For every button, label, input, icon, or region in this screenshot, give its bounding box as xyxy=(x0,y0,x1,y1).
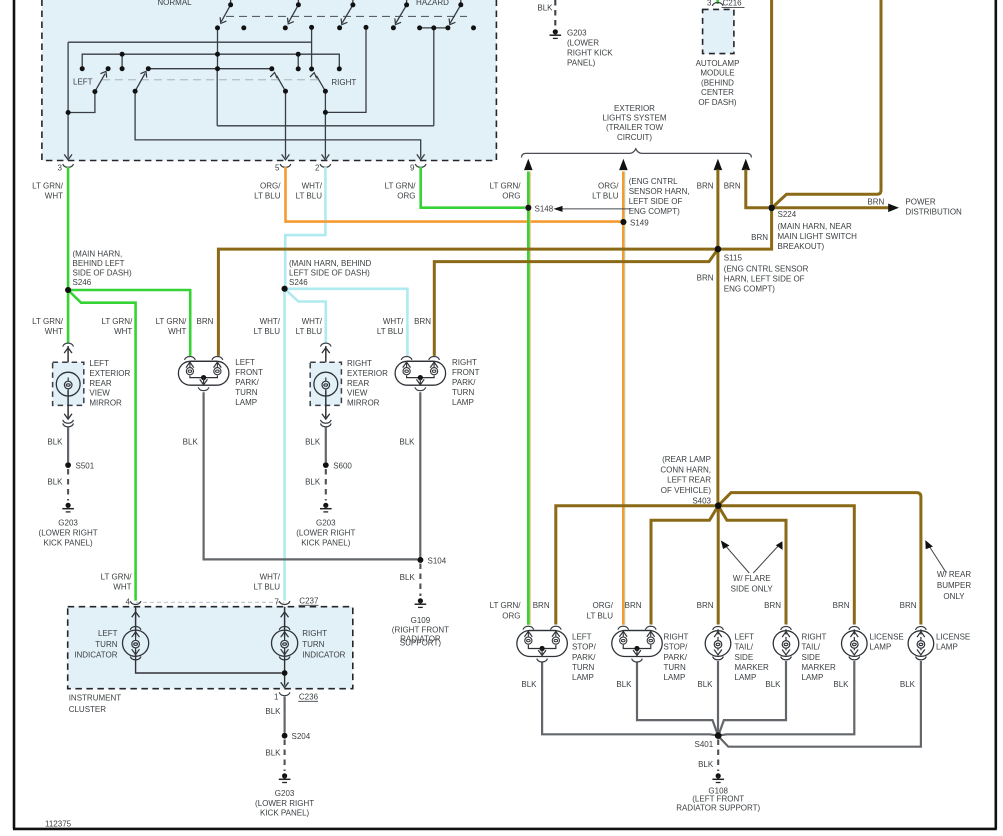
svg-text:RIGHT: RIGHT xyxy=(452,358,477,367)
wire BLK left stop lamp to S401 xyxy=(542,663,716,736)
svg-text:ONLY: ONLY xyxy=(943,592,965,601)
svg-text:BRN: BRN xyxy=(533,601,550,610)
svg-text:LEFT: LEFT xyxy=(735,633,755,642)
svg-text:CONN HARN,: CONN HARN, xyxy=(660,465,711,474)
wire BLK right mirror to S600 xyxy=(325,427,327,462)
wire BLK left tail lamp to S401 xyxy=(717,661,719,733)
svg-text:S600: S600 xyxy=(333,462,352,471)
svg-text:S148: S148 xyxy=(535,205,554,214)
svg-text:NORMAL: NORMAL xyxy=(157,0,192,7)
svg-text:RIGHT KICK: RIGHT KICK xyxy=(567,49,613,58)
svg-text:BRN: BRN xyxy=(697,182,714,191)
svg-text:LT GRN/: LT GRN/ xyxy=(32,317,64,326)
license lamp (rear bumper) xyxy=(908,627,934,660)
svg-text:(TRAILER TOW: (TRAILER TOW xyxy=(606,123,663,132)
wire BRN feed to S115 xyxy=(716,170,719,503)
note W/ REAR BUMPER ONLY with arrow xyxy=(928,545,946,573)
svg-text:SIDE OF DASH): SIDE OF DASH) xyxy=(73,269,132,278)
wire BLK left front lamp to S104 xyxy=(204,392,418,559)
splice S401 xyxy=(715,732,721,738)
svg-text:C216: C216 xyxy=(723,0,743,8)
svg-text:LT BLU: LT BLU xyxy=(377,327,404,336)
svg-text:ORG/: ORG/ xyxy=(593,601,614,610)
svg-text:S104: S104 xyxy=(428,557,447,566)
svg-text:BLK: BLK xyxy=(521,680,537,689)
wire BRN from power distribution (right loop) xyxy=(773,0,881,207)
splice S204 xyxy=(282,733,288,739)
svg-text:(ENG CNTRL: (ENG CNTRL xyxy=(629,177,678,186)
svg-text:BLK: BLK xyxy=(183,437,199,446)
svg-text:FRONT: FRONT xyxy=(452,368,480,377)
svg-text:LEFT SIDE OF: LEFT SIDE OF xyxy=(629,197,683,206)
svg-text:BRN: BRN xyxy=(764,601,781,610)
wire BRN S403 to left stop lamp xyxy=(556,506,715,625)
svg-text:BLK: BLK xyxy=(47,478,63,487)
note W/ FLARE SIDE ONLY with arrows xyxy=(723,543,780,573)
svg-text:PANEL): PANEL) xyxy=(567,59,596,68)
svg-text:HAZARD: HAZARD xyxy=(416,0,449,7)
wire BLK left mirror to S501 xyxy=(67,427,69,462)
right turn indicator xyxy=(272,607,346,686)
left stop/park/turn lamp xyxy=(517,626,568,662)
svg-text:WHT: WHT xyxy=(45,327,63,336)
svg-text:BRN: BRN xyxy=(724,182,741,191)
wire branch to left front park lamp xyxy=(68,290,190,356)
rear wire color labels xyxy=(490,601,917,621)
svg-text:ORG: ORG xyxy=(502,192,520,201)
svg-text:BRN: BRN xyxy=(625,601,642,610)
ground G109 xyxy=(415,598,427,607)
wire BRN S115 to left front park lamp xyxy=(218,249,714,356)
svg-text:REAR: REAR xyxy=(347,379,369,388)
right tail/side marker lamp xyxy=(773,627,799,660)
svg-text:LEFT REAR: LEFT REAR xyxy=(667,476,711,485)
splice S501 xyxy=(65,462,71,468)
svg-text:(LOWER RIGHT: (LOWER RIGHT xyxy=(255,799,314,808)
svg-text:TURN: TURN xyxy=(302,640,324,649)
svg-text:BLK: BLK xyxy=(399,437,415,446)
svg-text:G203: G203 xyxy=(58,519,78,528)
ground G203 (instrument cluster) xyxy=(279,773,291,782)
svg-text:2: 2 xyxy=(315,164,320,173)
splice S246 (right) xyxy=(282,286,288,292)
svg-text:EXTERIOR: EXTERIOR xyxy=(614,104,655,113)
wire BLK S600 to G203 (dashed) xyxy=(325,469,327,501)
note (ENG CNTRL SENSOR HARN, LEFT SIDE OF ENG COMPT) xyxy=(629,177,690,216)
svg-text:PARK/: PARK/ xyxy=(572,653,596,662)
svg-text:INSTRUMENT: INSTRUMENT xyxy=(69,694,122,703)
wire BRN S403 to right stop lamp xyxy=(651,506,718,625)
svg-text:BLK: BLK xyxy=(537,4,553,13)
svg-text:TURN: TURN xyxy=(664,663,686,672)
wire branch to left mirror xyxy=(67,290,70,343)
svg-text:LEFT: LEFT xyxy=(73,78,93,87)
trailer tow feed arrows (solid) xyxy=(524,159,750,170)
connector C236 pin 1 xyxy=(279,692,290,695)
svg-text:STOP/: STOP/ xyxy=(572,643,597,652)
svg-text:WHT/: WHT/ xyxy=(302,182,323,191)
svg-text:TAIL/: TAIL/ xyxy=(802,643,821,652)
svg-text:1: 1 xyxy=(274,693,279,702)
svg-text:LAMP: LAMP xyxy=(870,643,892,652)
svg-text:LEFT SIDE OF DASH): LEFT SIDE OF DASH) xyxy=(289,269,370,278)
switch contact dots xyxy=(66,2,476,115)
brace bracket xyxy=(522,149,752,158)
svg-text:KICK PANEL): KICK PANEL) xyxy=(260,809,310,818)
svg-text:LT GRN/: LT GRN/ xyxy=(490,182,522,191)
right front park/turn lamp xyxy=(395,357,480,407)
svg-text:(MAIN HARN, BEHIND: (MAIN HARN, BEHIND xyxy=(289,259,371,268)
svg-text:AUTOLAMP: AUTOLAMP xyxy=(696,59,740,68)
splice S600 xyxy=(323,462,329,468)
svg-text:C236: C236 xyxy=(299,693,319,702)
autolamp module (dashed box) xyxy=(703,9,734,53)
svg-text:RIGHT: RIGHT xyxy=(802,633,827,642)
right exterior rear view mirror xyxy=(310,343,388,427)
svg-text:S246: S246 xyxy=(73,278,92,287)
svg-text:BRN: BRN xyxy=(697,601,714,610)
svg-text:ORG/: ORG/ xyxy=(260,182,281,191)
splice S224 xyxy=(768,205,774,211)
svg-text:BLK: BLK xyxy=(765,680,781,689)
wire BRN S224 to power distribution xyxy=(775,206,890,209)
svg-text:112375: 112375 xyxy=(45,820,72,829)
switch arm arrowheads xyxy=(100,17,455,78)
svg-text:SIDE ONLY: SIDE ONLY xyxy=(731,585,774,594)
svg-text:CIRCUIT): CIRCUIT) xyxy=(617,133,652,142)
svg-text:LT BLU: LT BLU xyxy=(587,612,614,621)
splice S115 xyxy=(715,246,721,252)
switch linkage dashed lines xyxy=(226,15,467,17)
svg-text:LT BLU: LT BLU xyxy=(254,583,281,592)
svg-text:BLK: BLK xyxy=(616,680,632,689)
svg-text:9: 9 xyxy=(410,164,415,173)
svg-text:(LOWER RIGHT: (LOWER RIGHT xyxy=(296,529,355,538)
svg-text:(LEFT FRONT: (LEFT FRONT xyxy=(692,795,744,804)
svg-text:FRONT: FRONT xyxy=(235,368,263,377)
svg-text:INDICATOR: INDICATOR xyxy=(302,651,345,660)
svg-text:(RIGHT FRONT: (RIGHT FRONT xyxy=(392,626,449,635)
svg-text:LT BLU: LT BLU xyxy=(296,327,323,336)
svg-text:3: 3 xyxy=(58,164,63,173)
svg-text:TURN: TURN xyxy=(452,388,474,397)
svg-text:WHT/: WHT/ xyxy=(260,573,281,582)
left tail/side marker lamp xyxy=(705,627,731,660)
connector C216 pin 3 xyxy=(716,0,719,4)
svg-text:POWER: POWER xyxy=(905,197,935,206)
svg-text:REAR: REAR xyxy=(89,379,111,388)
cluster ground junction xyxy=(282,670,288,676)
svg-text:BLK: BLK xyxy=(305,437,321,446)
svg-text:LT GRN/: LT GRN/ xyxy=(32,182,64,191)
wire BLK S401 to G108 (dashed) xyxy=(717,740,719,772)
svg-text:3: 3 xyxy=(707,0,712,8)
svg-text:LEFT: LEFT xyxy=(89,359,109,368)
svg-text:LT GRN/: LT GRN/ xyxy=(385,182,417,191)
ground G203 (top, lower right kick panel) xyxy=(550,29,562,38)
wire color labels below switch xyxy=(32,182,741,201)
svg-text:LAMP: LAMP xyxy=(572,673,594,682)
svg-text:MIRROR: MIRROR xyxy=(89,398,122,407)
wire BLK license lamp 2 to S401 xyxy=(720,661,921,747)
svg-text:LEFT: LEFT xyxy=(572,633,592,642)
wire BLK S501 to G203 (dashed) xyxy=(67,469,69,501)
svg-text:(LOWER: (LOWER xyxy=(567,39,599,48)
svg-text:INDICATOR: INDICATOR xyxy=(74,651,117,660)
svg-text:LT GRN/: LT GRN/ xyxy=(490,601,522,610)
svg-text:ORG/: ORG/ xyxy=(598,182,619,191)
svg-text:VIEW: VIEW xyxy=(89,389,110,398)
switch internal wiring xyxy=(68,0,461,158)
svg-text:MARKER: MARKER xyxy=(735,663,769,672)
svg-text:S501: S501 xyxy=(76,462,95,471)
svg-text:MODULE: MODULE xyxy=(700,69,734,78)
svg-text:TURN: TURN xyxy=(95,640,117,649)
wire BRN S403 to left tail lamp xyxy=(717,508,720,625)
svg-text:4: 4 xyxy=(126,598,131,607)
splice S403 dot xyxy=(715,503,721,509)
svg-text:TURN: TURN xyxy=(235,388,257,397)
wire branch to instrument cluster pin 4 xyxy=(68,290,136,601)
wire BLK license lamp 1 to S401 xyxy=(720,661,854,735)
svg-text:WHT: WHT xyxy=(45,192,63,201)
wire BRN S224 down to S115 row xyxy=(721,211,772,249)
svg-text:STOP/: STOP/ xyxy=(664,643,689,652)
ground G108 xyxy=(712,773,724,782)
svg-text:KICK PANEL): KICK PANEL) xyxy=(43,539,93,548)
left turn indicator xyxy=(74,607,281,673)
svg-text:TAIL/: TAIL/ xyxy=(735,643,754,652)
wire BLK right tail lamp to S401 xyxy=(719,661,786,734)
svg-text:LAMP: LAMP xyxy=(735,673,757,682)
svg-text:LT GRN/: LT GRN/ xyxy=(101,317,133,326)
svg-text:G203: G203 xyxy=(567,29,587,38)
svg-text:(MAIN HARN, NEAR: (MAIN HARN, NEAR xyxy=(778,222,852,231)
ground wire BLK at top (from switch, off-page) xyxy=(554,0,556,28)
wire BRN S115 to right front park lamp xyxy=(434,249,718,356)
wire BRN from power distribution (left vertical) xyxy=(770,0,773,204)
svg-text:LAMP: LAMP xyxy=(664,673,686,682)
svg-text:ENG COMPT): ENG COMPT) xyxy=(724,285,775,294)
svg-text:BLK: BLK xyxy=(47,437,63,446)
svg-text:BLK: BLK xyxy=(698,760,714,769)
svg-text:C237: C237 xyxy=(299,597,319,606)
wire BRN S403 to license lamp 2 (rear bumper) xyxy=(718,493,921,625)
wire WHT/LT BLU from pin 2 to S246 (right) xyxy=(285,167,408,601)
svg-text:SIDE: SIDE xyxy=(802,653,821,662)
svg-text:RADIATOR SUPPORT): RADIATOR SUPPORT) xyxy=(676,803,760,812)
svg-text:LT BLU: LT BLU xyxy=(592,192,619,201)
svg-text:SIDE: SIDE xyxy=(735,653,754,662)
pin connector cups and numbers xyxy=(63,164,426,167)
ground G203 (right mirror) xyxy=(320,503,332,512)
junction dots top layer xyxy=(65,205,775,739)
svg-text:(REAR LAMP: (REAR LAMP xyxy=(662,455,711,464)
splice S104 xyxy=(418,557,424,563)
left exterior rear view mirror xyxy=(53,343,131,427)
svg-text:BLK: BLK xyxy=(833,680,849,689)
exterior lights system (trailer tow circuit) label xyxy=(602,104,666,142)
instrument cluster (dashed box) xyxy=(68,607,353,689)
svg-text:BLK: BLK xyxy=(697,680,713,689)
svg-text:CENTER: CENTER xyxy=(701,88,734,97)
svg-text:LAMP: LAMP xyxy=(802,673,824,682)
svg-text:S246: S246 xyxy=(289,278,308,287)
svg-text:TURN: TURN xyxy=(572,663,594,672)
svg-text:5: 5 xyxy=(275,164,280,173)
svg-text:OF VEHICLE): OF VEHICLE) xyxy=(661,486,712,495)
wire LT GRN/WHT from pin 3 to S246 xyxy=(68,167,190,601)
splice S403 label xyxy=(660,455,711,506)
svg-text:BLK: BLK xyxy=(400,573,416,582)
svg-text:MIRROR: MIRROR xyxy=(347,398,380,407)
wire BLK right stop lamp to S401 xyxy=(637,663,718,735)
connector C237 line and pins xyxy=(136,601,284,603)
svg-text:G109: G109 xyxy=(411,616,431,625)
svg-text:BRN: BRN xyxy=(867,197,884,206)
svg-text:LT GRN/: LT GRN/ xyxy=(156,317,188,326)
svg-text:S224: S224 xyxy=(778,210,797,219)
wire BLK right front lamp to S104 xyxy=(419,392,421,557)
wire BRN feed to S224 xyxy=(746,170,768,208)
svg-text:RIGHT: RIGHT xyxy=(331,78,356,87)
svg-text:LT BLU: LT BLU xyxy=(254,327,281,336)
svg-text:(ENG CNTRL SENSOR: (ENG CNTRL SENSOR xyxy=(724,265,809,274)
svg-text:WHT: WHT xyxy=(168,327,186,336)
svg-text:S204: S204 xyxy=(292,732,311,741)
wire BLK cluster to S204 xyxy=(284,697,286,733)
svg-text:(MAIN HARN,: (MAIN HARN, xyxy=(73,250,123,259)
right stop/park/turn lamp xyxy=(612,626,663,662)
ground G203 (left mirror) xyxy=(62,503,74,512)
svg-text:BLK: BLK xyxy=(265,749,281,758)
wire color labels above front lamps xyxy=(32,317,431,336)
svg-text:SENSOR HARN,: SENSOR HARN, xyxy=(629,187,690,196)
svg-text:LAMP: LAMP xyxy=(452,398,474,407)
svg-text:LEFT: LEFT xyxy=(235,358,255,367)
svg-text:BREAKOUT): BREAKOUT) xyxy=(778,242,825,251)
svg-text:BRN: BRN xyxy=(697,274,714,283)
svg-text:MARKER: MARKER xyxy=(802,663,836,672)
svg-text:VIEW: VIEW xyxy=(347,389,368,398)
svg-text:LICENSE: LICENSE xyxy=(870,633,904,642)
svg-text:EXTERIOR: EXTERIOR xyxy=(89,369,130,378)
svg-text:S115: S115 xyxy=(724,254,743,263)
wire branch to right front park lamp xyxy=(285,289,408,356)
svg-text:SUPPORT): SUPPORT) xyxy=(400,639,442,648)
splice S246 (left) xyxy=(65,287,71,293)
svg-text:DISTRIBUTION: DISTRIBUTION xyxy=(905,207,962,216)
svg-text:BRN: BRN xyxy=(900,601,917,610)
wire BLK S104 to G109 (dashed) xyxy=(419,564,421,597)
svg-text:LICENSE: LICENSE xyxy=(936,633,970,642)
svg-text:PARK/: PARK/ xyxy=(235,378,259,387)
svg-text:PARK/: PARK/ xyxy=(452,378,476,387)
svg-text:WHT/: WHT/ xyxy=(302,317,323,326)
svg-text:BLK: BLK xyxy=(900,680,916,689)
svg-text:RIGHT: RIGHT xyxy=(664,633,689,642)
wire LT GRN/ORG from pin 9 to S148 xyxy=(421,167,530,625)
svg-text:RIGHT: RIGHT xyxy=(347,359,372,368)
svg-text:RIGHT: RIGHT xyxy=(302,629,327,638)
svg-text:(LOWER RIGHT: (LOWER RIGHT xyxy=(39,529,98,538)
svg-text:G203: G203 xyxy=(275,789,295,798)
svg-text:KICK PANEL): KICK PANEL) xyxy=(301,539,351,548)
svg-text:ORG: ORG xyxy=(397,192,415,201)
svg-text:LT GRN/: LT GRN/ xyxy=(101,573,133,582)
svg-text:BLK: BLK xyxy=(265,707,281,716)
svg-text:EXTERIOR: EXTERIOR xyxy=(347,369,388,378)
svg-text:LAMP: LAMP xyxy=(235,398,257,407)
svg-text:OF DASH): OF DASH) xyxy=(698,98,737,107)
splice S149 xyxy=(620,219,626,225)
svg-text:LT BLU: LT BLU xyxy=(254,192,281,201)
wire BRN S403 to license lamp 1 xyxy=(721,506,854,625)
svg-text:LIGHTS SYSTEM: LIGHTS SYSTEM xyxy=(602,114,666,123)
svg-text:LAMP: LAMP xyxy=(936,643,958,652)
svg-text:BRN: BRN xyxy=(197,317,214,326)
svg-text:LEFT: LEFT xyxy=(98,629,118,638)
license lamp (flare side) xyxy=(842,627,868,660)
svg-text:LT BLU: LT BLU xyxy=(296,192,323,201)
svg-text:G203: G203 xyxy=(316,519,336,528)
svg-text:W/ FLARE: W/ FLARE xyxy=(733,574,771,583)
svg-text:WHT/: WHT/ xyxy=(260,317,281,326)
svg-text:W/ REAR: W/ REAR xyxy=(937,570,971,579)
svg-text:BUMPER: BUMPER xyxy=(937,581,971,590)
wire ORG/LT BLU from pin 5 to S149 xyxy=(286,167,626,625)
svg-text:BRN: BRN xyxy=(414,317,431,326)
wire branch to instrument cluster pin 7 xyxy=(283,289,286,601)
svg-text:CLUSTER: CLUSTER xyxy=(69,705,107,714)
svg-text:WHT/: WHT/ xyxy=(383,317,404,326)
rear BLK labels xyxy=(521,680,915,689)
wire branch to right mirror xyxy=(285,289,326,343)
svg-text:PARK/: PARK/ xyxy=(664,653,688,662)
svg-text:S149: S149 xyxy=(630,219,649,228)
wire BRN S403 to right tail lamp xyxy=(718,506,786,625)
svg-text:S401: S401 xyxy=(695,740,714,749)
svg-text:BLK: BLK xyxy=(305,478,321,487)
svg-text:MAIN LIGHT SWITCH: MAIN LIGHT SWITCH xyxy=(778,232,858,241)
left front park/turn lamp xyxy=(178,357,263,407)
svg-text:WHT: WHT xyxy=(113,583,131,592)
svg-text:BRN: BRN xyxy=(751,233,768,242)
svg-text:(BEHIND: (BEHIND xyxy=(701,79,734,88)
svg-text:HARN, LEFT SIDE OF: HARN, LEFT SIDE OF xyxy=(724,275,805,284)
svg-text:ENG COMPT): ENG COMPT) xyxy=(629,207,680,216)
splice S148 with pointer arrow xyxy=(525,205,531,211)
svg-text:BEHIND LEFT: BEHIND LEFT xyxy=(73,259,125,268)
svg-text:WHT: WHT xyxy=(114,327,132,336)
turn signal / hazard switch (dashed box) xyxy=(42,0,497,161)
svg-text:BRN: BRN xyxy=(833,601,850,610)
svg-text:7: 7 xyxy=(275,598,280,607)
pin exit arrowheads (chevrons) xyxy=(64,154,424,159)
wire BLK S204 to G203 (dashed) xyxy=(284,740,286,772)
svg-text:ORG: ORG xyxy=(502,612,520,621)
